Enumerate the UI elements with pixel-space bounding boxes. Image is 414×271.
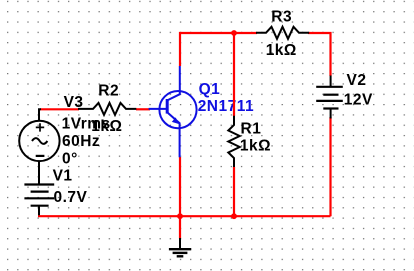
svg-text:V2: V2 xyxy=(347,72,367,89)
svg-text:V1: V1 xyxy=(53,167,73,184)
svg-text:0.7V: 0.7V xyxy=(54,189,88,206)
svg-text:12V: 12V xyxy=(344,92,373,109)
svg-text:R1: R1 xyxy=(241,121,262,138)
svg-text:R3: R3 xyxy=(271,8,292,25)
svg-text:R2: R2 xyxy=(98,82,119,99)
svg-text:60Hz: 60Hz xyxy=(62,133,100,150)
svg-text:Q1: Q1 xyxy=(199,81,221,98)
svg-text:1kΩ: 1kΩ xyxy=(240,137,271,154)
svg-text:1kΩ: 1kΩ xyxy=(266,42,297,59)
svg-text:2N1711: 2N1711 xyxy=(198,98,254,115)
svg-text:0°: 0° xyxy=(62,150,78,167)
